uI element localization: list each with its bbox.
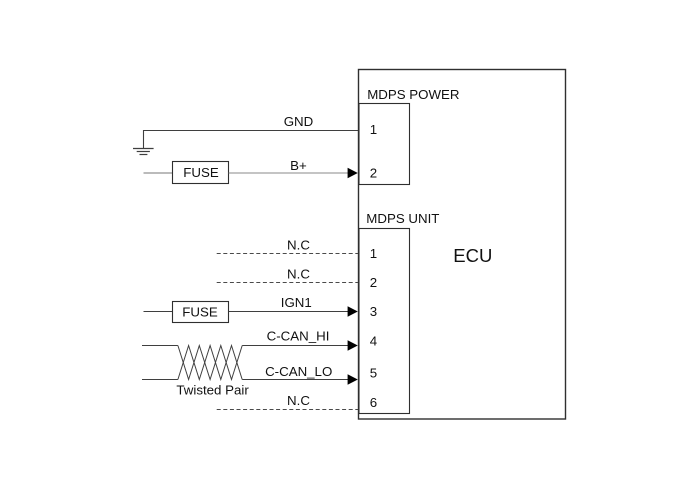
svg-text:FUSE: FUSE <box>183 165 219 180</box>
wire N.C pin 1 <box>217 253 358 255</box>
svg-text:C-CAN_LO: C-CAN_LO <box>265 364 332 379</box>
wire fuse F1 input <box>144 172 173 174</box>
svg-text:1: 1 <box>370 122 377 137</box>
svg-text:1: 1 <box>370 246 377 261</box>
wire IGN1 <box>229 311 350 313</box>
wire N.C pin 6 <box>217 409 358 411</box>
svg-text:N.C: N.C <box>287 393 310 408</box>
svg-text:ECU: ECU <box>453 245 492 266</box>
svg-text:2: 2 <box>370 275 377 290</box>
svg-text:MDPS POWER: MDPS POWER <box>367 87 459 102</box>
ground <box>133 149 154 155</box>
arrow into pin 3 (IGN1) <box>348 306 358 317</box>
svg-text:GND: GND <box>284 114 314 129</box>
arrow into pin 4 (C-CAN_HI) <box>348 340 358 351</box>
svg-text:Twisted Pair: Twisted Pair <box>176 382 249 397</box>
fuse F1 <box>173 162 229 184</box>
svg-text:MDPS UNIT: MDPS UNIT <box>366 211 439 226</box>
wire N.C pin 2 <box>217 282 358 284</box>
svg-text:FUSE: FUSE <box>182 304 218 319</box>
wire GND <box>144 131 359 149</box>
ECU box <box>359 70 566 420</box>
svg-text:3: 3 <box>370 304 377 319</box>
svg-text:2: 2 <box>370 166 377 181</box>
arrow into pin 5 (C-CAN_LO) <box>348 374 358 385</box>
svg-text:N.C: N.C <box>287 266 310 281</box>
MDPS POWER connector box <box>359 104 410 185</box>
svg-text:4: 4 <box>370 333 377 348</box>
wire fuse F2 input <box>144 311 173 313</box>
fuse F2 <box>173 302 229 323</box>
twisted pair symbol <box>178 346 242 380</box>
arrow into pin 2 (B+) <box>348 168 358 179</box>
svg-text:5: 5 <box>370 365 377 380</box>
svg-text:B+: B+ <box>290 158 307 173</box>
wire C-CAN_HI <box>142 345 349 347</box>
svg-text:6: 6 <box>370 395 377 410</box>
MDPS UNIT connector box <box>359 229 410 414</box>
svg-text:N.C: N.C <box>287 237 310 252</box>
wire C-CAN_LO <box>142 379 349 381</box>
svg-text:IGN1: IGN1 <box>281 295 312 310</box>
wire B+ <box>229 172 349 174</box>
svg-text:C-CAN_HI: C-CAN_HI <box>267 328 330 343</box>
